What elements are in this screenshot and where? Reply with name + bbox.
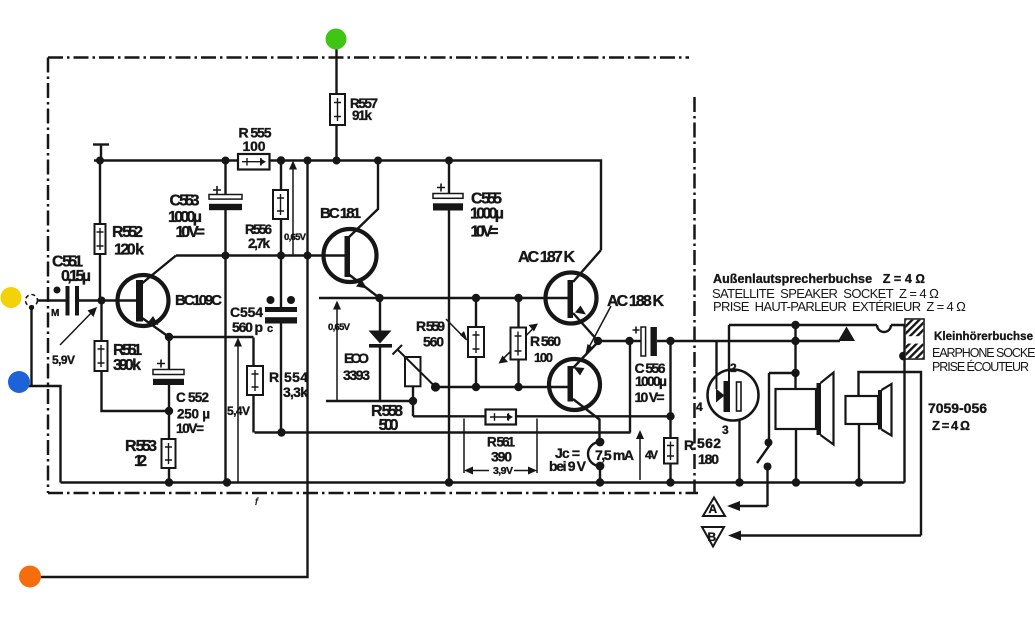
svg-text:0,65V: 0,65V [284, 232, 307, 243]
svg-text:5,9V: 5,9V [52, 353, 75, 367]
svg-text:PRISE HAUT-PARLEUR EXTÉRIEUR: PRISE HAUT-PARLEUR EXTÉRIEUR Z = 4 Ω [713, 299, 966, 314]
svg-text:R 552: R 552 [112, 224, 143, 241]
svg-text:250 µ: 250 µ [177, 407, 210, 422]
svg-text:BC109C: BC109C [175, 292, 222, 309]
svg-text:10 V=: 10 V= [176, 224, 206, 241]
svg-text:PRISE ÉCOUTEUR: PRISE ÉCOUTEUR [932, 359, 1029, 374]
svg-text:3: 3 [722, 423, 729, 437]
svg-text:390 k: 390 k [113, 357, 141, 374]
svg-text:7059-056: 7059-056 [928, 400, 987, 416]
svg-text:2,7k: 2,7k [248, 236, 270, 251]
svg-text:R 559: R 559 [416, 318, 445, 334]
svg-text:4V: 4V [645, 448, 658, 462]
svg-text:R: R [684, 437, 694, 453]
svg-text:C554: C554 [230, 304, 263, 320]
svg-text:Kleinhörerbuchse: Kleinhörerbuchse [934, 331, 1033, 343]
svg-text:12: 12 [134, 453, 147, 470]
svg-text:R: R [269, 369, 279, 385]
svg-text:Z = 4 Ω: Z = 4 Ω [932, 418, 970, 433]
svg-text:M: M [51, 308, 59, 319]
svg-text:100: 100 [534, 350, 553, 365]
svg-text:120 k: 120 k [114, 242, 144, 259]
svg-text:180: 180 [698, 451, 719, 467]
svg-text:Außenlautsprecherbuchse Z =: Außenlautsprecherbuchse Z = 4 Ω [713, 272, 925, 286]
svg-text:0,15µ: 0,15µ [61, 268, 91, 285]
svg-text:3,9V: 3,9V [493, 465, 513, 477]
svg-text:bei 9 V: bei 9 V [549, 458, 587, 474]
svg-text:R 561: R 561 [487, 434, 515, 449]
svg-text:3,3k: 3,3k [283, 384, 308, 400]
svg-text:AC 188 K: AC 188 K [607, 293, 664, 310]
svg-text:C 553: C 553 [170, 193, 200, 210]
svg-text:A: A [709, 502, 718, 516]
svg-text:91k: 91k [352, 108, 372, 123]
svg-text:10V=: 10V= [176, 421, 204, 436]
svg-text:10 V=: 10 V= [635, 389, 665, 405]
svg-text:560: 560 [423, 334, 444, 350]
svg-text:7,5 mA: 7,5 mA [595, 447, 634, 463]
svg-text:554: 554 [284, 369, 308, 385]
svg-text:AC 187 K: AC 187 K [518, 249, 575, 266]
svg-text:100: 100 [243, 138, 266, 154]
svg-text:390: 390 [491, 449, 512, 465]
svg-text:2: 2 [730, 361, 737, 375]
svg-text:R 560: R 560 [530, 333, 561, 349]
svg-text:B: B [708, 530, 717, 544]
svg-text:562: 562 [697, 435, 721, 451]
svg-text:5,4V: 5,4V [227, 404, 250, 418]
svg-text:0,65V: 0,65V [328, 322, 351, 333]
svg-text:1000µ: 1000µ [470, 206, 504, 223]
svg-text:C 552: C 552 [176, 390, 209, 405]
svg-text:EARPHONE SOCKET: EARPHONE SOCKET [932, 346, 1035, 360]
svg-text:R556: R556 [245, 222, 272, 237]
svg-text:500: 500 [379, 417, 399, 434]
svg-text:3393: 3393 [343, 367, 370, 383]
svg-text:ECO: ECO [344, 350, 369, 366]
svg-text:4: 4 [696, 400, 703, 414]
svg-text:10 V=: 10 V= [471, 224, 499, 241]
svg-text:560 p: 560 p [232, 319, 263, 335]
svg-text:1000µ: 1000µ [635, 373, 667, 389]
svg-text:c: c [267, 323, 273, 335]
svg-text:BC 181: BC 181 [320, 205, 361, 222]
